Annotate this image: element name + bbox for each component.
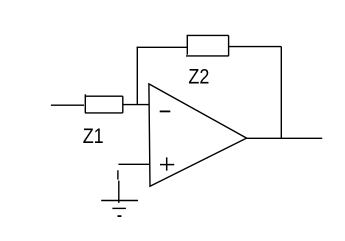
wire output: [247, 137, 323, 139]
wire Z2 right to corner: [229, 46, 282, 48]
svg-text:Z2: Z2: [188, 65, 209, 88]
ground: [101, 170, 138, 216]
resistor Z2: [186, 35, 229, 56]
wire feedback top horizontal: [137, 46, 188, 48]
resistor Z1: [85, 94, 123, 113]
op-amp U1: [149, 84, 247, 186]
wire non-inverting input: [118, 163, 149, 165]
wire feedback right vertical: [280, 47, 282, 139]
wire feedback tap vertical: [136, 47, 138, 105]
plus sign (non-inverting input): [160, 157, 174, 170]
minus sign (inverting input): [160, 110, 171, 112]
wire Z1 to inverting input: [123, 104, 149, 106]
svg-text:Z1: Z1: [83, 125, 104, 148]
wire input left segment: [51, 104, 84, 106]
